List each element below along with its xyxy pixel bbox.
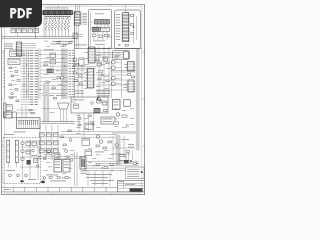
wire bbox=[4, 49, 6, 99]
bus extension bbox=[84, 160, 139, 166]
wires to CRT section bbox=[97, 53, 124, 58]
inner border bbox=[4, 6, 142, 193]
wires to labels bbox=[21, 51, 30, 97]
border frame bbox=[2, 5, 145, 195]
wire bbox=[90, 12, 94, 46]
labels left margin bbox=[3, 51, 5, 88]
discrete parts left bbox=[8, 67, 20, 97]
labels bbox=[42, 49, 66, 96]
bus line pair bbox=[72, 67, 96, 69]
revision table strip bbox=[2, 187, 118, 192]
resistor R44 bbox=[122, 115, 127, 117]
relay K1 bbox=[101, 117, 115, 124]
capacitor C30 bbox=[127, 124, 129, 128]
wires bbox=[96, 75, 128, 90]
parts in section bbox=[74, 99, 107, 113]
wire bbox=[125, 5, 127, 13]
border reference ticks bbox=[2, 4, 145, 194]
net labels column bbox=[69, 50, 75, 97]
regulator parts grid bbox=[40, 133, 59, 153]
labels bbox=[4, 44, 13, 49]
ic U4 bbox=[10, 50, 23, 57]
transistor Q9 bbox=[116, 113, 120, 117]
note box bbox=[126, 167, 144, 179]
labels bbox=[124, 64, 128, 88]
junction dots bbox=[39, 54, 67, 90]
ic U20 bbox=[63, 160, 70, 173]
ic U3 bbox=[122, 13, 130, 42]
wires down bbox=[40, 125, 58, 160]
transistor Q7 bbox=[96, 135, 103, 144]
wire bbox=[20, 147, 40, 167]
labels bbox=[75, 44, 87, 47]
resistor R45 bbox=[114, 122, 119, 124]
discrete parts center bbox=[73, 58, 84, 85]
discrete parts bbox=[93, 34, 111, 45]
ic U17 bbox=[127, 80, 136, 92]
ic U11 ladder bbox=[87, 47, 97, 63]
connector CN2 bbox=[17, 118, 41, 129]
wire fan from J1 bbox=[45, 15, 70, 21]
discrete parts bbox=[47, 130, 72, 152]
wires bbox=[112, 136, 136, 160]
wire bbox=[111, 60, 121, 99]
ic U16 bbox=[126, 62, 135, 72]
capacitor C21 bbox=[15, 140, 18, 167]
wire bbox=[75, 152, 78, 186]
ic U5 bbox=[8, 58, 20, 64]
ic U12 ladder bbox=[86, 69, 95, 89]
labels bottom-center bbox=[43, 148, 74, 174]
wires bbox=[94, 24, 108, 40]
wire bbox=[43, 15, 45, 37]
labels bottom-right bbox=[88, 148, 114, 163]
section outline B bbox=[89, 10, 112, 49]
fan wires to U12 bbox=[75, 70, 87, 86]
labels bbox=[128, 144, 134, 147]
transformer T2 bbox=[54, 153, 62, 172]
bus line pair bbox=[2, 37, 76, 39]
PDF badge bbox=[0, 0, 42, 27]
labels right column bbox=[114, 108, 134, 128]
long wires bbox=[61, 132, 118, 138]
wires bbox=[38, 156, 86, 158]
wire bbox=[76, 5, 80, 11]
ic U19 bbox=[4, 112, 12, 118]
bottom parts row bbox=[43, 177, 68, 180]
wire bbox=[17, 33, 19, 37]
capacitor C9 bbox=[118, 44, 128, 46]
wire bus bbox=[99, 46, 109, 98]
labels right of U2 bbox=[82, 13, 87, 24]
labels above J1 bbox=[44, 8, 70, 10]
component row under badge bbox=[11, 28, 39, 32]
power parts bbox=[6, 141, 39, 180]
labels under bus bbox=[44, 41, 74, 47]
dashed section box (power unit) bbox=[3, 138, 41, 184]
section outline bbox=[71, 97, 108, 113]
regulator VR1 bbox=[3, 103, 6, 117]
ic U7 bbox=[36, 11, 42, 15]
parts on bus bbox=[93, 163, 113, 171]
capacitor C20 bbox=[7, 140, 10, 167]
section outline bbox=[112, 51, 129, 60]
parts right of U3 bbox=[130, 15, 134, 35]
wire mesh horizontals bbox=[40, 51, 68, 94]
gray bus B bbox=[47, 83, 50, 122]
parts mid bbox=[82, 123, 111, 156]
labels left of U3 bbox=[116, 14, 121, 39]
wires to bottom bbox=[88, 171, 110, 186]
triple bus bbox=[84, 166, 126, 171]
wires above CN2 bbox=[12, 106, 36, 118]
labels bbox=[95, 13, 104, 16]
parts right bbox=[128, 74, 135, 78]
wire bbox=[38, 49, 40, 100]
ic U8 bbox=[92, 27, 109, 31]
parts below section M bbox=[76, 113, 101, 134]
parts bbox=[115, 139, 129, 163]
wire fan to bus bbox=[46, 31, 68, 37]
transistor Q14 bbox=[112, 82, 122, 86]
ic U13 bbox=[115, 52, 129, 59]
ground bbox=[41, 176, 45, 183]
labels bbox=[52, 41, 70, 44]
title block bbox=[117, 181, 144, 192]
wire bbox=[57, 5, 59, 7]
wire bbox=[34, 15, 36, 39]
labels bbox=[74, 91, 110, 94]
ic U18 bbox=[6, 105, 12, 114]
wire bbox=[73, 12, 77, 13]
labels bbox=[86, 174, 114, 184]
connector fan between buses bbox=[42, 97, 76, 121]
gray bus short bbox=[112, 131, 136, 134]
pin number labels bbox=[46, 16, 70, 19]
flyback T3 bbox=[80, 157, 87, 174]
section outline bbox=[115, 10, 141, 48]
ic U14 ladder bbox=[16, 42, 36, 56]
page background bbox=[0, 0, 149, 198]
wire bus bbox=[75, 14, 83, 98]
connector J1 bbox=[43, 10, 73, 14]
gray bus A bbox=[43, 83, 46, 122]
parts cluster bbox=[44, 53, 64, 94]
labels bbox=[4, 132, 26, 135]
transistor Q11 bbox=[112, 60, 122, 64]
wire bbox=[84, 113, 94, 137]
wire bbox=[134, 13, 137, 43]
resistor network RN1 bbox=[45, 20, 69, 30]
junction dots bbox=[23, 54, 29, 92]
ic U22 bbox=[124, 100, 130, 106]
gray bus drop bbox=[116, 135, 121, 165]
wire bus under U2 bbox=[75, 25, 79, 48]
wires and labels bbox=[10, 97, 38, 105]
ic U21 bbox=[113, 100, 121, 110]
labels center-left bbox=[44, 57, 63, 85]
transistor Q12 bbox=[112, 66, 122, 70]
resistor R20 bbox=[73, 33, 83, 39]
connector J2 bbox=[95, 20, 110, 25]
bus line pair bbox=[111, 70, 136, 72]
parts right of ladders bbox=[97, 57, 110, 96]
labels center bbox=[84, 52, 111, 89]
diode D3 bbox=[98, 97, 101, 100]
section divider bbox=[75, 48, 142, 50]
ic U23 bbox=[119, 150, 133, 160]
gray bus vertical right bbox=[136, 49, 140, 150]
wire bbox=[23, 140, 39, 180]
labels bbox=[46, 175, 71, 182]
section top line bbox=[42, 122, 75, 124]
wire bundle vertical bbox=[62, 49, 68, 100]
transistor Q13 bbox=[112, 76, 122, 80]
net labels column bbox=[30, 50, 38, 97]
wire bus bbox=[24, 50, 29, 99]
discrete parts center-right bbox=[96, 59, 109, 82]
ic U2 bbox=[74, 11, 82, 25]
ground bbox=[20, 180, 24, 182]
